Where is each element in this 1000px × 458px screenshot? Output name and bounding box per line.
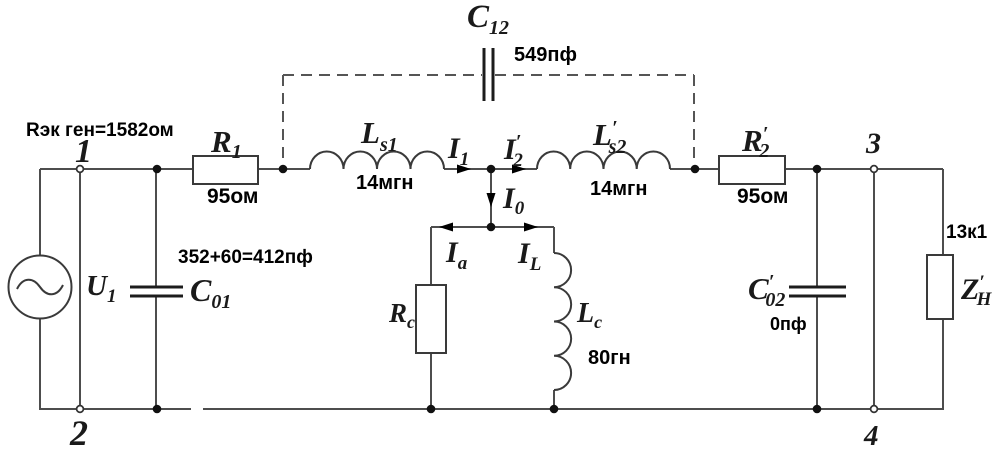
wire left vertical source bottom xyxy=(39,318,41,410)
wire U2 port line xyxy=(873,169,875,409)
wire I0 vertical xyxy=(490,169,492,227)
wire right vertical bottom xyxy=(942,319,944,410)
svg-text:80гн: 80гн xyxy=(588,347,631,369)
svg-text:352+60=412пф: 352+60=412пф xyxy=(178,247,313,268)
wire Rc branch top xyxy=(430,227,432,285)
dashed wire C12 left vertical xyxy=(282,75,284,164)
svg-text:95ом: 95ом xyxy=(737,185,788,208)
resistor R1 xyxy=(193,156,258,184)
wire Lc branch top xyxy=(553,227,555,253)
svg-text:2: 2 xyxy=(69,413,88,453)
terminal 2 xyxy=(77,406,84,413)
capacitor C02 xyxy=(789,286,846,289)
node C01 bottom xyxy=(153,405,162,414)
wire bottom left segment xyxy=(40,408,191,410)
node Rc bottom xyxy=(427,405,436,414)
wire left vertical source top xyxy=(39,169,41,256)
svg-text:I′2: I′2 xyxy=(503,131,523,171)
current arrow I0 xyxy=(487,193,496,207)
current arrow I1 xyxy=(457,165,471,174)
node C02 bottom xyxy=(813,405,822,414)
svg-text:14мгн: 14мгн xyxy=(590,178,647,200)
node shunt split xyxy=(487,223,496,232)
svg-text:4: 4 xyxy=(863,420,879,452)
dashed wire C12 right horizontal xyxy=(495,74,694,76)
dashed wire C12 right vertical xyxy=(693,75,695,164)
svg-text:0пф: 0пф xyxy=(770,314,807,334)
wire C01 branch xyxy=(155,169,157,286)
svg-text:Rэк ген=1582ом: Rэк ген=1582ом xyxy=(26,120,174,141)
dashed wire C12 left horizontal xyxy=(283,74,482,76)
source U1 xyxy=(9,256,72,319)
svg-text:95ом: 95ом xyxy=(207,185,258,208)
wire R1 to Ls1 xyxy=(258,168,310,170)
svg-text:549пф: 549пф xyxy=(514,44,577,66)
wire Rc branch bottom xyxy=(430,353,432,409)
node before R2 xyxy=(691,165,700,174)
node C01 top xyxy=(153,165,162,174)
wire bottom main segment xyxy=(203,408,943,410)
wire R2 to right corner xyxy=(785,168,943,170)
current arrow I2 xyxy=(512,165,526,174)
terminal 3 xyxy=(871,166,878,173)
wire shunt split horizontal xyxy=(431,226,554,228)
resistor Rc xyxy=(416,285,446,353)
inductor Lc xyxy=(554,253,571,390)
resistor R2 xyxy=(719,156,785,184)
node C02 top xyxy=(813,165,822,174)
svg-text:13к1: 13к1 xyxy=(946,222,988,243)
wire Lc branch bottom xyxy=(553,390,555,409)
wire C02 branch xyxy=(816,169,818,286)
svg-text:R′2: R′2 xyxy=(741,123,769,162)
inductor Ls2 xyxy=(537,151,670,169)
capacitor C12 xyxy=(483,48,486,101)
wire Ls2 to R2 xyxy=(670,168,719,170)
terminal 4 xyxy=(871,406,878,413)
wire top left horizontal xyxy=(40,168,193,170)
svg-text:14мгн: 14мгн xyxy=(356,172,413,194)
node after R1 xyxy=(279,165,288,174)
node center xyxy=(487,165,496,174)
current arrow IL xyxy=(524,223,538,232)
current arrow Ia xyxy=(439,223,453,232)
wire right vertical top xyxy=(942,169,944,255)
inductor Ls1 xyxy=(310,152,444,170)
wire U1 port line xyxy=(79,169,81,409)
terminal 1 xyxy=(77,166,84,173)
svg-text:3: 3 xyxy=(865,127,881,160)
wire Ls1 to Ls2 center xyxy=(444,168,537,170)
capacitor C01 xyxy=(130,286,183,289)
load ZH xyxy=(927,255,953,319)
node Lc bottom xyxy=(550,405,559,414)
